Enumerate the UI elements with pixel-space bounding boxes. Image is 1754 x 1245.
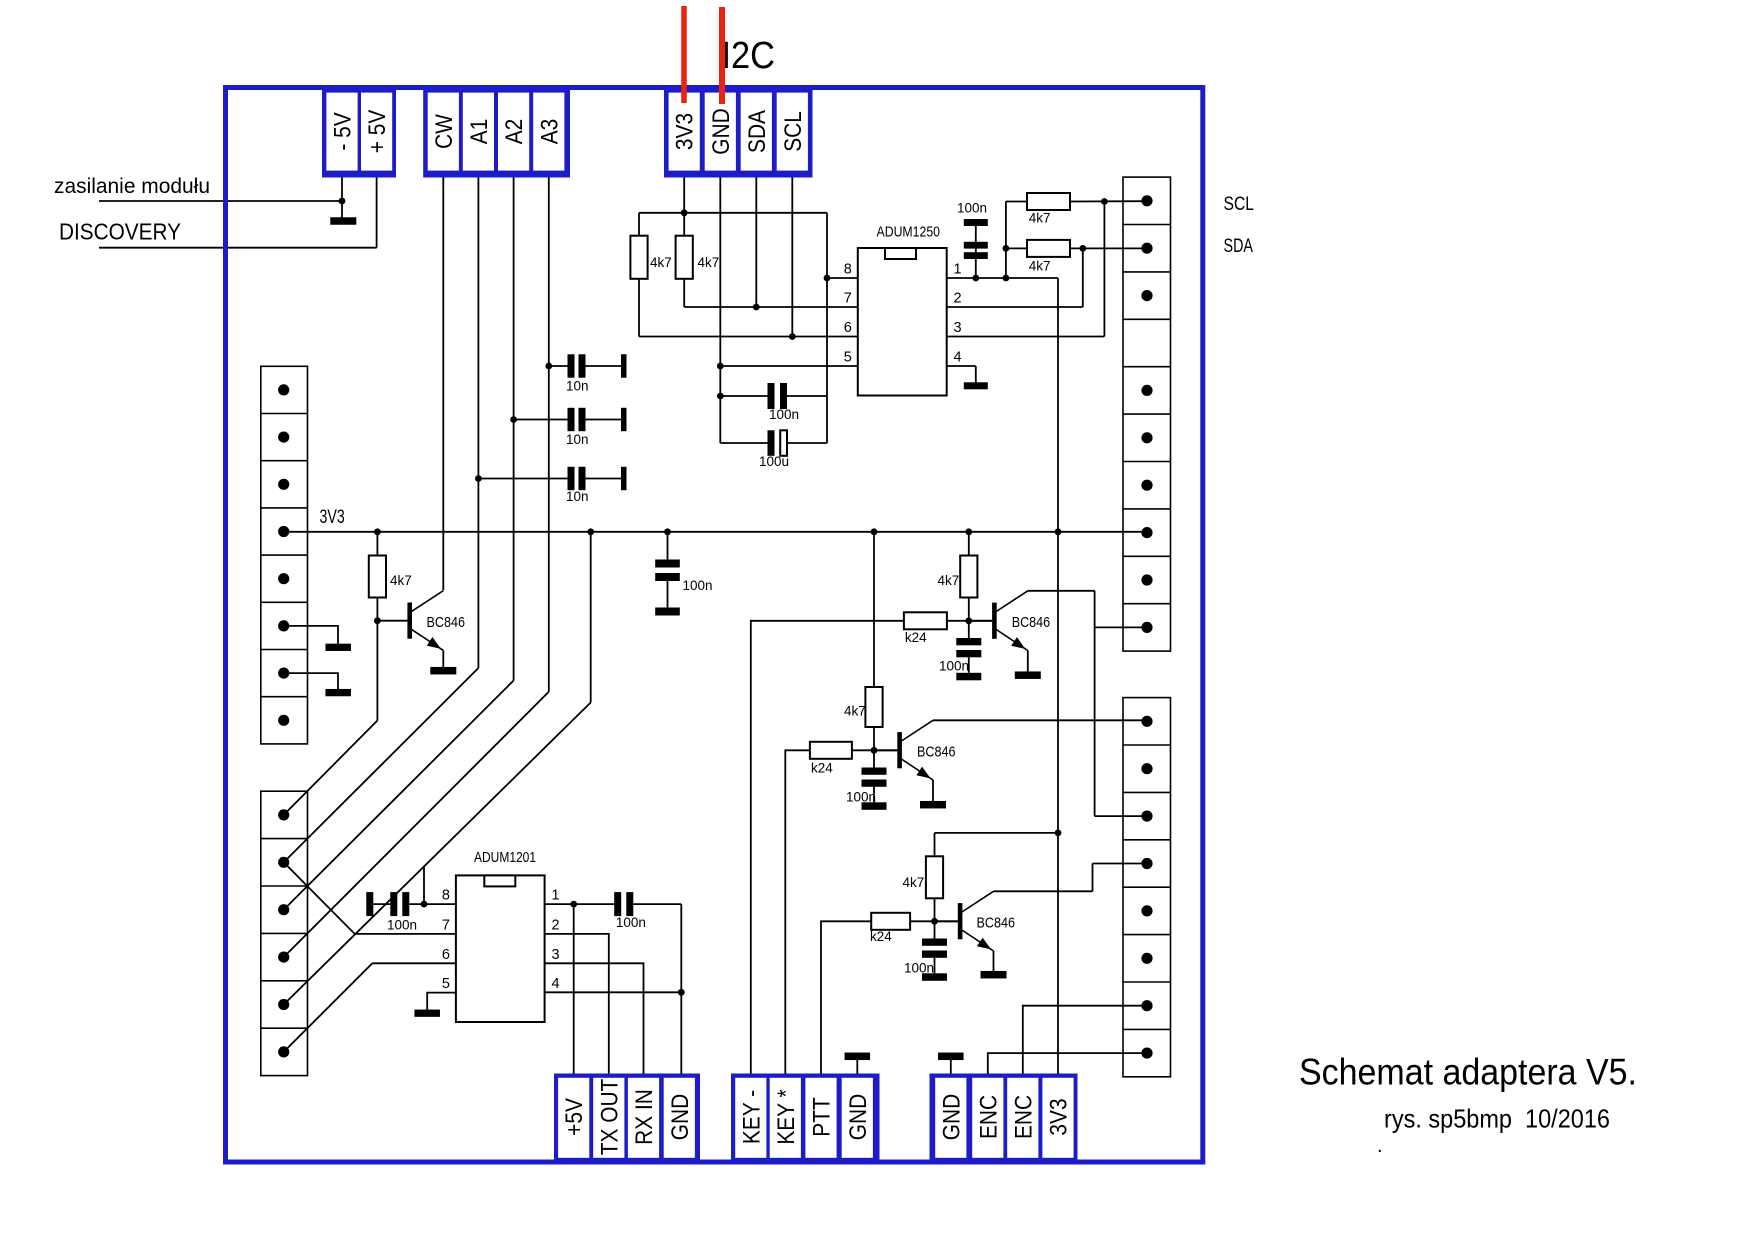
svg-text:.: . xyxy=(1377,1135,1383,1157)
svg-text:PTT: PTT xyxy=(808,1097,835,1137)
svg-text:BC846: BC846 xyxy=(427,614,466,631)
svg-text:3: 3 xyxy=(552,947,560,963)
svg-text:+5V: +5V xyxy=(561,1098,588,1136)
svg-text:SCL: SCL xyxy=(779,111,806,152)
svg-text:6: 6 xyxy=(844,320,852,336)
svg-text:7: 7 xyxy=(442,917,450,933)
svg-text:100n: 100n xyxy=(846,790,876,805)
svg-text:SDA: SDA xyxy=(1224,236,1254,257)
svg-text:100n: 100n xyxy=(683,578,713,593)
svg-text:4k7: 4k7 xyxy=(1029,211,1051,226)
svg-text:Schemat adaptera V5.: Schemat adaptera V5. xyxy=(1299,1052,1637,1093)
svg-text:3V3: 3V3 xyxy=(1045,1098,1072,1135)
svg-text:A3: A3 xyxy=(536,119,563,145)
svg-text:3: 3 xyxy=(954,320,962,336)
svg-text:ENC: ENC xyxy=(975,1095,1002,1139)
svg-text:+ 5V: + 5V xyxy=(364,110,391,154)
svg-text:2: 2 xyxy=(552,917,560,933)
svg-text:8: 8 xyxy=(844,262,852,278)
svg-text:zasilanie modułu: zasilanie modułu xyxy=(54,175,210,198)
svg-text:5: 5 xyxy=(844,350,852,366)
svg-text:1: 1 xyxy=(954,262,962,278)
svg-text:3V3: 3V3 xyxy=(671,113,698,150)
svg-text:5: 5 xyxy=(442,976,450,992)
svg-text:3V3: 3V3 xyxy=(320,507,345,528)
svg-text:KEY -: KEY - xyxy=(738,1090,765,1144)
svg-text:10n: 10n xyxy=(566,489,589,504)
svg-text:4k7: 4k7 xyxy=(844,704,866,719)
svg-text:100u: 100u xyxy=(759,454,789,469)
svg-text:ENC: ENC xyxy=(1010,1095,1037,1139)
svg-text:k24: k24 xyxy=(870,929,892,944)
svg-text:BC846: BC846 xyxy=(1012,614,1050,631)
svg-text:I2C: I2C xyxy=(722,35,776,77)
svg-text:rys. sp5bmp 10/2016: rys. sp5bmp 10/2016 xyxy=(1384,1104,1610,1134)
svg-text:100n: 100n xyxy=(957,201,987,216)
svg-text:GND: GND xyxy=(844,1094,871,1140)
svg-text:DISCOVERY: DISCOVERY xyxy=(59,219,181,245)
svg-text:SDA: SDA xyxy=(743,110,770,153)
svg-text:10n: 10n xyxy=(566,432,589,447)
svg-text:SCL: SCL xyxy=(1224,194,1255,215)
svg-text:100n: 100n xyxy=(387,918,417,933)
svg-text:4: 4 xyxy=(552,976,560,992)
svg-text:A2: A2 xyxy=(501,119,528,145)
svg-text:GND: GND xyxy=(707,108,734,154)
svg-text:100n: 100n xyxy=(904,961,934,976)
svg-text:- 5V: - 5V xyxy=(329,112,356,150)
svg-text:4k7: 4k7 xyxy=(650,255,672,270)
svg-text:k24: k24 xyxy=(905,630,927,645)
svg-text:4k7: 4k7 xyxy=(1029,259,1051,274)
svg-text:A1: A1 xyxy=(466,119,493,145)
svg-text:2: 2 xyxy=(954,291,962,307)
svg-text:RX IN: RX IN xyxy=(631,1089,658,1145)
svg-text:100n: 100n xyxy=(616,915,646,930)
svg-text:ADUM1250: ADUM1250 xyxy=(877,225,941,241)
svg-text:GND: GND xyxy=(938,1094,965,1140)
svg-text:4: 4 xyxy=(954,350,962,366)
svg-text:6: 6 xyxy=(442,947,450,963)
svg-text:BC846: BC846 xyxy=(917,744,956,761)
svg-text:4k7: 4k7 xyxy=(698,255,720,270)
svg-text:10n: 10n xyxy=(566,379,589,394)
svg-text:ADUM1201: ADUM1201 xyxy=(474,850,536,866)
svg-text:7: 7 xyxy=(844,291,852,307)
svg-text:4k7: 4k7 xyxy=(390,573,412,588)
svg-text:k24: k24 xyxy=(811,761,833,776)
svg-text:100n: 100n xyxy=(769,407,799,422)
svg-text:4k7: 4k7 xyxy=(938,573,960,588)
svg-text:4k7: 4k7 xyxy=(903,875,925,890)
svg-text:1: 1 xyxy=(552,888,560,904)
svg-text:BC846: BC846 xyxy=(977,915,1016,932)
svg-text:8: 8 xyxy=(442,888,450,904)
svg-text:KEY *: KEY * xyxy=(772,1089,799,1145)
svg-text:CW: CW xyxy=(430,113,457,148)
svg-text:GND: GND xyxy=(666,1094,693,1140)
svg-text:TX OUT: TX OUT xyxy=(596,1078,623,1155)
svg-text:100n: 100n xyxy=(939,659,969,674)
